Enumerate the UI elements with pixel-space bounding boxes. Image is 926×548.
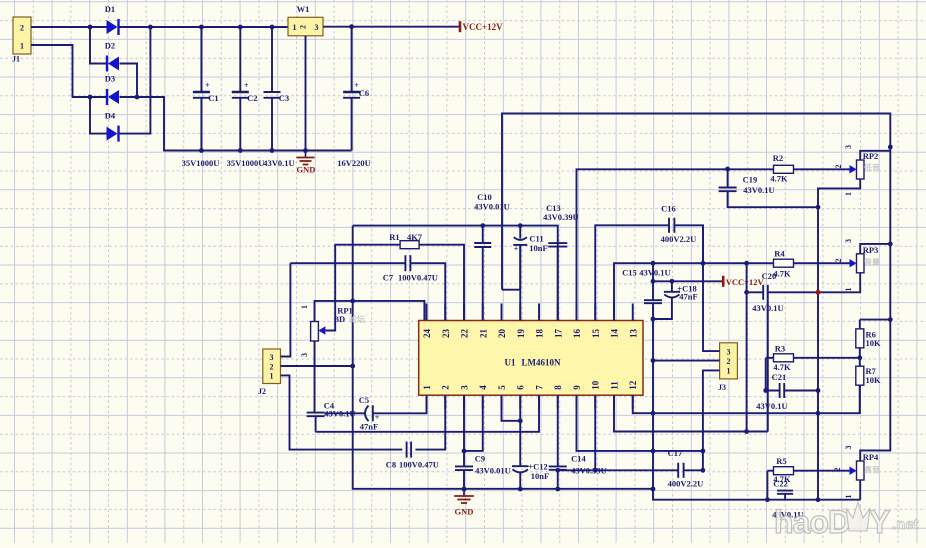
svg-text:+: + <box>514 245 519 254</box>
capacitor C4 <box>307 413 325 417</box>
junction C1 bottom <box>199 148 204 153</box>
junction D3 anode / D2 anode <box>135 95 140 100</box>
designator C8 <box>386 460 396 470</box>
regulator W1 <box>288 17 323 36</box>
designator +C18 <box>677 284 696 294</box>
svg-text:高音: 高音 <box>864 465 880 475</box>
junction C18 top <box>670 279 675 284</box>
svg-text:J1: J1 <box>12 55 20 64</box>
wire R3 left down to C21 row <box>765 358 767 391</box>
junction mid column on pin14 row <box>744 261 749 266</box>
designator C22 <box>773 479 788 489</box>
pin number 7 of U1 <box>535 385 545 390</box>
designator C14 <box>571 454 586 464</box>
pin number 22 of U1 <box>460 329 470 339</box>
wire C22 stub <box>784 494 786 500</box>
svg-text:16V220U: 16V220U <box>337 158 371 168</box>
svg-text:18: 18 <box>535 329 545 339</box>
junction pin5 jog on pin6 column <box>518 418 523 423</box>
pin number 8 of U1 <box>553 385 563 390</box>
svg-text:3: 3 <box>844 446 853 450</box>
capacitor C13 <box>548 243 567 247</box>
pin number 23 of U1 <box>441 329 451 339</box>
watermark bass label of RP2 <box>863 163 880 173</box>
wire D2 cathode up to AC1 node <box>90 27 108 64</box>
wire RP4 pin1 down <box>859 480 861 500</box>
resistor R3 <box>774 354 794 362</box>
svg-text:+C12: +C12 <box>528 462 547 472</box>
svg-text:22: 22 <box>460 329 470 339</box>
svg-text:C5: C5 <box>359 395 369 405</box>
svg-text:5: 5 <box>497 385 507 390</box>
wire RP4 pin3 up <box>860 450 890 461</box>
plus sign of C6 <box>354 81 359 90</box>
wiper arrow of RP3 <box>850 259 857 267</box>
junction right column on bottom row <box>816 497 821 502</box>
junction C10 on row <box>480 223 485 228</box>
svg-text:音量: 音量 <box>864 257 880 267</box>
designator RP1 <box>337 306 353 316</box>
svg-text:低音: 低音 <box>863 163 880 173</box>
capacitor C11 polarized <box>513 237 527 245</box>
designator C20 <box>762 271 777 281</box>
designator C4 <box>324 401 335 411</box>
svg-text:1: 1 <box>270 372 274 381</box>
svg-text:R2: R2 <box>773 153 783 163</box>
wire D4 cathode up to + rail <box>120 27 151 134</box>
wire pin14 row to R4 <box>614 263 850 320</box>
pin label 3 of J2 <box>270 353 274 362</box>
wire C14 vertical from pin8 <box>557 395 559 489</box>
value 43V0.1U of C3 <box>263 158 294 168</box>
svg-text:C20: C20 <box>762 271 777 281</box>
svg-text:10nF: 10nF <box>529 243 547 253</box>
svg-text:C9: C9 <box>475 454 485 464</box>
designator +C12 <box>528 462 547 472</box>
label GND bottom <box>455 507 474 517</box>
svg-text:+: + <box>244 81 249 90</box>
ground symbol bottom <box>454 489 474 503</box>
designator C19 <box>743 175 758 185</box>
capacitor C18 polarized <box>664 292 680 298</box>
svg-text:4.7K: 4.7K <box>773 362 791 372</box>
svg-text:400V2.2U: 400V2.2U <box>661 234 697 244</box>
designator RP3 <box>863 245 879 255</box>
watermark volume label of RP3 <box>864 257 880 267</box>
wire C6 vertical <box>351 27 353 151</box>
svg-text:haoD: haoD <box>774 504 850 540</box>
wire C18 vertical <box>653 281 672 319</box>
junction C6 top <box>349 24 354 29</box>
capacitor C7 <box>405 255 410 271</box>
svg-text:2: 2 <box>833 468 842 472</box>
svg-text:35V1000U: 35V1000U <box>227 158 265 168</box>
pin number 17 of U1 <box>553 329 563 339</box>
pin number 16 of U1 <box>572 329 582 339</box>
svg-text:9: 9 <box>572 385 582 390</box>
svg-text:D4: D4 <box>105 111 116 121</box>
svg-text:43V0.01U: 43V0.01U <box>474 202 510 212</box>
capacitor C2 <box>232 92 249 98</box>
watermark haoDIY.net <box>774 502 919 540</box>
svg-text:43V0.39U: 43V0.39U <box>543 212 579 222</box>
svg-text:GND: GND <box>455 507 474 517</box>
junction mid column bottom <box>744 429 749 434</box>
svg-text:1: 1 <box>844 192 853 196</box>
pin number 11 of U1 <box>610 381 620 390</box>
svg-text:4: 4 <box>478 385 488 390</box>
svg-text:6: 6 <box>516 385 526 390</box>
wire C11 vertical <box>519 226 521 290</box>
pin number 9 of U1 <box>572 385 582 390</box>
junction pin10 on C17 row <box>593 468 598 473</box>
svg-text:43V0.1U: 43V0.1U <box>743 185 774 195</box>
wire J1 pin2 to D1 anode and +rail <box>31 26 107 28</box>
svg-text:4.7K: 4.7K <box>770 174 788 184</box>
junction RP3 pin3 on loop <box>888 242 893 247</box>
wire R5 left down to bottom row <box>766 471 768 500</box>
svg-text:23: 23 <box>441 329 451 339</box>
pin label 2 of RP3 <box>834 259 843 263</box>
wire W1 pin2 to ground bus <box>305 36 307 151</box>
pin number 4 of U1 <box>478 385 488 390</box>
capacitor C9 <box>455 466 473 470</box>
svg-text:W1: W1 <box>297 4 310 14</box>
svg-text:J2: J2 <box>258 387 266 396</box>
designator C9 <box>475 454 485 464</box>
potentiometer RP1 body <box>311 322 319 342</box>
wire R1 right to IC pin22 <box>419 245 464 321</box>
pin label 3 of J3 <box>727 347 731 356</box>
svg-text:Y: Y <box>869 504 890 540</box>
wire C2 to rails <box>239 27 241 151</box>
pin label 1 of J3 <box>727 366 731 375</box>
svg-text:RP3: RP3 <box>863 245 879 255</box>
designator C21 <box>772 372 787 382</box>
svg-text:100V0.47U: 100V0.47U <box>398 273 438 283</box>
junction C1 top <box>199 25 204 30</box>
wire mid column <box>746 263 748 431</box>
wire C19 vertical <box>728 169 818 207</box>
op-amp U1 LM4610N body <box>419 321 643 396</box>
value 4.7K of R3 <box>773 362 791 372</box>
junction pin4 jog on pin3 column <box>462 449 467 454</box>
capacitor C19 <box>719 188 737 192</box>
junction C21 row right <box>816 388 821 393</box>
wire ground bus top-left <box>201 150 351 152</box>
designator R7 <box>866 366 877 376</box>
pin label 1 of RP2 <box>844 192 853 196</box>
wire C17 row <box>558 469 703 471</box>
capacitor C10 <box>474 243 491 247</box>
power symbol VCC+12V top <box>460 21 503 32</box>
pin label 2 of J1 <box>20 24 24 33</box>
capacitor C5 polarized <box>365 405 373 421</box>
wire C16 row from pin15 <box>595 225 703 320</box>
capacitor C6 <box>343 92 360 98</box>
wire C10 vertical to pin21 <box>482 226 484 321</box>
plus sign of C2 <box>244 81 249 90</box>
value 100V0.47U of C8 <box>399 460 439 470</box>
pin stubs bottom of U1 <box>427 395 633 409</box>
pin number 3 of U1 <box>460 385 470 390</box>
potentiometer RP3 body <box>857 254 865 273</box>
pin number 14 of U1 <box>610 329 620 339</box>
junction ground bus right end <box>651 487 656 492</box>
pin 1 of W1 <box>293 23 297 32</box>
svg-text:3: 3 <box>460 385 470 390</box>
svg-text:35V1000U: 35V1000U <box>182 158 220 168</box>
capacitor C14 <box>549 466 567 469</box>
designator R4 <box>774 249 785 259</box>
svg-text:D1: D1 <box>105 4 115 14</box>
capacitor C3 <box>264 92 281 98</box>
junction C16 right on pin14 row <box>701 261 706 266</box>
pin number 20 of U1 <box>497 329 507 339</box>
resistor R1 <box>400 241 419 249</box>
junction pin12 row at right column <box>816 411 821 416</box>
svg-text:4K7: 4K7 <box>407 232 423 242</box>
designator R2 <box>773 153 783 163</box>
svg-text:1: 1 <box>293 23 297 32</box>
svg-text:C10: C10 <box>477 192 492 202</box>
junction R5 left on bottom row <box>765 497 770 502</box>
wire pin9 row <box>577 395 703 451</box>
wire R6 R7 column <box>859 320 861 414</box>
wire C20 row <box>747 291 764 293</box>
svg-text:8: 8 <box>553 385 563 390</box>
pin number 24 of U1 <box>422 329 432 339</box>
capacitor C22 <box>777 491 793 494</box>
designator R3 <box>775 344 785 354</box>
power symbol VCC+12V middle <box>723 276 764 287</box>
wire R3 row <box>766 357 860 359</box>
junction R6 top on loop <box>888 317 893 322</box>
svg-text:C7: C7 <box>383 273 394 283</box>
wire pin12 row <box>633 385 860 413</box>
designator J3 <box>718 383 726 392</box>
svg-text:13: 13 <box>628 329 638 339</box>
value 43V0.01U of C10 <box>474 202 510 212</box>
pin label 2 of RP2 <box>834 165 843 169</box>
svg-text:U1: U1 <box>505 358 516 368</box>
pin number 12 of U1 <box>628 380 638 390</box>
designator J1 <box>12 55 20 64</box>
svg-text:2: 2 <box>834 165 843 169</box>
wire VCC branch <box>653 280 723 282</box>
designator C2 <box>247 93 257 103</box>
wire row above IC with C10 C11 C13 <box>353 226 558 321</box>
svg-text:400V2.2U: 400V2.2U <box>668 479 704 489</box>
pin label 2 of J2 <box>270 362 274 371</box>
junction C20 row right red <box>816 290 821 295</box>
junction C9 ground <box>462 487 467 492</box>
svg-text:.net: .net <box>892 516 919 533</box>
capacitor C8 <box>407 442 412 458</box>
wire C3 to rails <box>271 27 273 151</box>
wire D3 anode to minus rail corner <box>120 97 202 151</box>
svg-text:2: 2 <box>299 25 308 29</box>
svg-text:C15: C15 <box>622 268 637 278</box>
svg-text:C1: C1 <box>208 93 218 103</box>
svg-text:1: 1 <box>844 288 853 292</box>
wire C4 ground bus under IC <box>316 395 539 432</box>
svg-text:100V0.47U: 100V0.47U <box>399 460 439 470</box>
value 10K of R6 <box>866 338 882 348</box>
junction C21 row left <box>763 388 768 393</box>
junction C3 top <box>270 25 275 30</box>
svg-text:C16: C16 <box>661 204 676 214</box>
junction C14 ground <box>555 487 560 492</box>
wire pin5 jog to pin6 column <box>502 395 521 421</box>
svg-text:43V0.1U: 43V0.1U <box>639 268 670 278</box>
capacitor C1 <box>193 92 210 98</box>
designator W1 <box>297 4 310 14</box>
svg-text:7: 7 <box>535 385 545 390</box>
designator C5 <box>359 395 369 405</box>
svg-text:2: 2 <box>834 259 843 263</box>
wire R1 left to wiper column <box>326 245 401 331</box>
svg-text:3: 3 <box>727 347 731 356</box>
svg-text:2: 2 <box>727 357 731 366</box>
wire RP2 pin1 down <box>818 179 860 500</box>
designator C1 <box>208 93 218 103</box>
designator RP2 <box>863 151 879 161</box>
svg-text:RP2: RP2 <box>863 151 879 161</box>
pin number 19 of U1 <box>516 329 526 339</box>
junction pin9 row at ground column <box>651 449 656 454</box>
value 4.7K of R5 <box>773 474 791 484</box>
designator R1 <box>389 232 399 242</box>
plus sign of C11 <box>514 245 519 254</box>
svg-text:R1: R1 <box>389 232 399 242</box>
svg-text:1: 1 <box>300 305 309 309</box>
potentiometer RP4 body <box>857 461 865 480</box>
resistor R6 <box>856 329 864 348</box>
junction VCC branch left <box>651 279 656 284</box>
value 47nF of C18 <box>679 292 697 302</box>
junction pin12 row at ground column <box>651 411 656 416</box>
wire C21 row <box>766 390 818 392</box>
svg-text:10K: 10K <box>866 375 882 385</box>
svg-text:D2: D2 <box>105 41 115 51</box>
value 10K of R7 <box>866 375 882 385</box>
wire center column <box>353 226 653 489</box>
svg-text:3: 3 <box>844 239 853 243</box>
pin number 15 of U1 <box>591 329 601 339</box>
svg-text:1: 1 <box>20 42 24 51</box>
svg-text:2: 2 <box>441 385 451 390</box>
svg-text:19: 19 <box>516 329 526 339</box>
wire C4 bottom to bus <box>315 416 317 432</box>
value 43V0.01U of C9 <box>475 466 511 476</box>
designator RP4 <box>863 452 879 462</box>
value 10nF of C11 <box>529 243 547 253</box>
svg-text:LM4610N: LM4610N <box>522 358 561 368</box>
capacitor C12 polarized <box>512 466 529 472</box>
connector J2 <box>263 349 281 384</box>
svg-text:GND: GND <box>297 165 316 175</box>
wire D3 cathode node down to D4 anode <box>90 97 107 134</box>
junction C11 on row <box>518 223 523 228</box>
watermark near RP1 <box>349 314 365 324</box>
svg-text:43V0.1U: 43V0.1U <box>756 401 787 411</box>
capacitor C15 <box>644 300 662 303</box>
wire RP1 pin1 up to IC pin24 row <box>315 301 425 322</box>
diode D3 <box>107 89 119 105</box>
resistor R7 <box>856 366 864 385</box>
wire feedback loop top <box>502 113 890 450</box>
junction C18 bottom on ground column <box>651 317 656 322</box>
designator D1 <box>105 4 115 14</box>
designator U1 <box>505 358 516 368</box>
svg-text:12: 12 <box>628 380 638 390</box>
capacitor C17 <box>678 463 683 478</box>
value 43V0.1U of C19 <box>743 185 774 195</box>
designator C10 <box>477 192 492 202</box>
junction W1 ground <box>303 148 308 153</box>
svg-text:11: 11 <box>610 381 620 390</box>
junction D3 cathode column <box>88 95 93 100</box>
wire W1 out to VCC <box>323 26 460 28</box>
value 100V0.47U of C7 <box>398 273 438 283</box>
svg-text:2: 2 <box>270 362 274 371</box>
wire D2 anode down to D3 anode node <box>120 64 138 98</box>
wire J3 pin2 to ground column <box>653 360 720 362</box>
junction C3 bottom <box>270 148 275 153</box>
junction D4 cathode at top rail <box>148 25 153 30</box>
designator D3 <box>105 74 115 84</box>
pin 3 of W1 <box>315 23 319 32</box>
pin label 3 of RP2 <box>844 145 853 149</box>
value 35V1000U of C1 <box>182 158 220 168</box>
wire C12 vertical from pin6 <box>519 395 521 489</box>
pin number 5 of U1 <box>497 385 507 390</box>
svg-text:D3: D3 <box>105 74 115 84</box>
pin number 6 of U1 <box>516 385 526 390</box>
value 43V0.39U of C13 <box>543 212 579 222</box>
value 4.7K of R2 <box>770 174 788 184</box>
pin label 3 of RP1 <box>300 353 309 357</box>
wire RP2 pin3 to loop <box>860 151 890 160</box>
designator C16 <box>661 204 676 214</box>
wire J3 pin1 down to C17 row <box>703 370 720 470</box>
svg-text:15: 15 <box>591 329 601 339</box>
svg-text:+: + <box>205 81 210 90</box>
pin label 3 of RP3 <box>844 239 853 243</box>
value 43V0.1U of C21 <box>756 401 787 411</box>
svg-text:1: 1 <box>422 385 432 390</box>
capacitor C16 <box>669 218 674 233</box>
resistor R4 <box>774 259 794 267</box>
svg-text:R5: R5 <box>776 456 786 466</box>
svg-text:10: 10 <box>591 380 601 390</box>
svg-text:43V0.1U: 43V0.1U <box>263 158 294 168</box>
pin label 2 of RP4 <box>833 468 842 472</box>
diode D2 <box>107 56 119 72</box>
svg-text:C8: C8 <box>386 460 396 470</box>
wire J2 pin2 to center column <box>281 365 353 367</box>
junction C12 ground <box>518 487 523 492</box>
svg-text:C22: C22 <box>773 479 788 489</box>
wiper arrow of RP4 <box>850 467 857 475</box>
junction C15 top on pin14 row <box>651 261 656 266</box>
pin label 1 of J2 <box>270 372 274 381</box>
junction RP2 pin3 on loop <box>888 145 893 150</box>
pin number 1 of U1 <box>422 385 432 390</box>
svg-text:21: 21 <box>478 329 488 339</box>
value 43V0.1U of C20 <box>752 303 783 313</box>
